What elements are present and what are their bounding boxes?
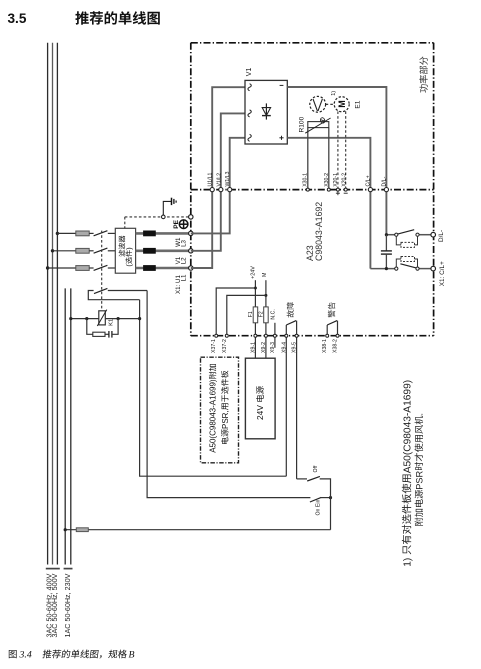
svg-text:M: M [262,272,268,277]
svg-text:.: . [414,413,424,416]
power section separator (dash-dot) [191,189,434,191]
label E1 [354,100,361,108]
svg-text:X9-5: X9-5 [292,342,298,353]
svg-text:X37-1: X37-1 [211,339,217,353]
converter enclosure boundary (dash-dot box) [191,42,434,44]
svg-text:A50(C98043-A1699): A50(C98043-A1699) [402,380,413,473]
svg-text:Off: Off [313,465,319,472]
contactor coil K1 [99,311,106,325]
svg-text:K1: K1 [108,319,114,326]
switch D/L- blade [397,230,415,235]
label 故障 [287,302,294,317]
switch C/L+ poles [395,267,398,270]
wire inner riser (K1 link) [140,300,287,477]
label W1/L3 [225,171,231,186]
polarity minus mark [280,84,284,86]
fuse bypass C/L+ (dashed) [396,259,401,267]
svg-text:X38-1: X38-1 [322,339,328,353]
polarity plus mark [279,137,283,139]
wire plus rail (C) [287,138,370,269]
label D/L- [381,176,387,186]
terminal X30-1 [306,188,309,191]
node ON junction [329,496,332,499]
wire +24V feeder [254,280,256,307]
wire filter to X1 terminal U1/L1 (thick) [136,267,189,270]
label (选件) [124,247,133,266]
terminal W1/L3 at board edge [228,188,232,192]
svg-text:F1: F1 [248,311,254,317]
svg-text:V1: V1 [246,68,253,77]
polarity + for fan [336,192,340,194]
terminal X9-4 [285,334,288,337]
wire filter to X1 terminal V1/L2 (thick) [136,250,189,253]
fuse F phase V1/L2 [76,248,89,253]
wire branch to fuse W1/L3 [57,232,75,234]
footnote mark 1) [331,91,337,96]
wire outer riser down to ON line [147,291,310,498]
terminal V1/L2 at board edge [219,188,223,192]
wire contactor to filter U1/L1 [108,267,116,269]
label PE [173,219,180,228]
label V1 L2 [175,256,182,264]
label 3AC 50-60Hz 400V [44,573,53,637]
svg-text:X30-1: X30-1 [303,173,309,187]
svg-text:PSR,: PSR, [221,410,230,429]
wire W1/L3 riser [191,138,245,234]
wire 1AC line A [64,288,66,564]
svg-text:): ) [124,247,133,249]
label V1/L2 [216,173,222,187]
footnote line 1 [402,380,414,567]
node +24V junction [254,287,257,290]
node coil rail on 1AC [69,317,72,320]
wire contactor to filter V1/L2 [108,250,116,252]
wire aux contact to outer riser [108,290,147,292]
label C98043-A1692 [314,202,324,261]
terminal X9-5 [295,334,298,337]
terminal X1 PE wire circle [189,215,193,219]
svg-text:1): 1) [402,555,413,567]
svg-text:24V: 24V [255,403,265,420]
terminal X1 U1/L1 [189,266,193,270]
wire fuse to contactor U1/L1 [89,267,93,269]
earth ground symbol [171,198,173,205]
svg-text:X30-2: X30-2 [324,173,330,187]
svg-text:U1/L1: U1/L1 [208,173,214,187]
polarity - for fan [344,192,348,194]
svg-text:+24V: +24V [250,266,256,279]
thermistor R100 body [308,122,329,128]
switch OFF blade [307,476,320,481]
wire V1/L2 riser [191,113,245,250]
label C/L+ [365,175,371,186]
label 功率部分 (power section) [419,57,428,93]
node M junction [264,294,267,297]
svg-text:X9-1: X9-1 [250,342,256,353]
terminal X9-3 [273,334,276,337]
svg-text:X9-3: X9-3 [270,342,276,353]
label M [262,272,268,277]
label D/L- terminal [438,230,445,242]
terminal X20-1 [336,188,339,191]
ferrite core V1/L2 [144,248,156,253]
svg-text:X9-2: X9-2 [261,342,267,353]
wire phase L1 [47,43,49,565]
supply end tick 3AC [46,568,60,570]
rectifier V1 box [245,80,287,144]
fuse F phase W1/L3 [76,231,89,236]
contactor K1 main contact U1/L1 [94,265,108,270]
svg-text:D/L-: D/L- [381,176,387,186]
wire minus rail (D) [287,87,386,235]
label X1: C/L+ [439,261,446,286]
label 警告 [328,302,335,317]
label 3AC 50-60Hz 500V [50,573,59,637]
svg-text:R100: R100 [299,116,306,132]
node C/L+ cap junction [385,267,388,270]
PE protective earth symbol [179,220,188,229]
svg-text:L2: L2 [181,257,188,264]
contactor K1 mechanical link (dashed) [101,231,103,311]
figure caption [9,650,32,661]
wire jog to X37-2 [227,295,266,335]
terminal D/L- [431,232,436,237]
node D/L- cap junction [385,233,388,236]
node tap phase branch U1/L1 [46,266,49,269]
diode symbol inside V1 [265,103,267,119]
wire fan supply + (dashed) [337,111,339,189]
fan motor M E1 [334,97,349,112]
svg-text:3AC 50-60Hz, 500V: 3AC 50-60Hz, 500V [50,573,59,637]
label +24V [250,266,256,279]
svg-text:L3: L3 [181,239,188,246]
label 24V 电源 [255,386,265,420]
svg-text:V1/L2: V1/L2 [216,173,222,187]
label W1 L3 [175,237,182,247]
wire C/L+ branch [370,268,396,270]
svg-text:X20-2: X20-2 [341,173,347,187]
terminal X38-1 [326,334,329,337]
wire X9-5 to OFF switch [297,478,307,480]
svg-text:1): 1) [331,91,337,96]
wire PE dashed vertical from filter [124,217,126,228]
node PE junction [162,215,166,219]
svg-text:L1: L1 [181,274,188,281]
svg-text:C/L+: C/L+ [365,175,371,186]
label X30-2 [324,173,330,187]
terminal U1/L1 at board edge [210,188,214,192]
wire branch to fuse V1/L2 [53,250,76,252]
contactor K1 main contact W1/L3 [94,231,108,236]
terminal X20-2 [344,188,347,191]
wire PE dashed horizontal to PE terminal [125,216,189,218]
terminal X1 C/L+ [431,266,436,271]
wire 1AC line B [70,288,72,564]
svg-text:E1: E1 [354,100,361,108]
terminal X1 W1/L3 [189,231,193,235]
fuse bypass D/L- (dashed) [396,236,401,245]
wire jog to X37-1 [216,288,255,336]
terminal X9-2 [264,334,267,337]
title 推荐的单线图 [75,11,159,24]
label X30-1 [303,173,309,187]
supply end tick 1AC [64,568,73,570]
theta mark [320,117,326,124]
dc link capacitor [385,235,387,251]
label Off [313,465,319,472]
fuse F2 [264,307,269,323]
fan impeller symbol [310,96,326,112]
svg-text:M: M [337,100,347,108]
label F1 [248,311,254,317]
wire fan supply - (dashed) [345,111,347,189]
svg-text:X37-2: X37-2 [222,339,228,353]
thermistor R100 legs [307,128,309,190]
wire branch to fuse U1/L1 [48,267,76,269]
snubber resistor [93,332,105,336]
24V power supply box [245,358,275,439]
section number 3.5 [8,11,27,26]
terminal D/L- at board edge [384,188,388,192]
wire fan to motor (dashed) [326,103,335,105]
terminal C/L+ at board edge [368,188,372,192]
optional supply A50 box (dash-dot) [201,357,239,463]
wire phase L2 [52,43,54,565]
node snubber right [117,317,120,320]
svg-text:D/L-: D/L- [438,230,445,242]
svg-text:X9-4: X9-4 [281,342,287,353]
terminal X1 V1/L2 [189,249,193,253]
svg-text:1AC 50-60Hz, 230V: 1AC 50-60Hz, 230V [63,573,72,637]
terminal X37-2 [225,334,228,337]
label 1AC 50-60Hz 230V [63,573,72,637]
terminal X38-2 [336,334,339,337]
ferrite core U1/L1 [144,266,156,271]
node tap phase branch W1/L3 [56,232,59,235]
svg-text:C98043-A1692: C98043-A1692 [314,202,324,261]
svg-text:PSR: PSR [414,470,424,489]
svg-text:A50(C98043-A1699): A50(C98043-A1699) [209,379,218,453]
snubber capacitor [108,331,110,338]
switch C/L+ blade [400,264,417,268]
svg-text:3.4: 3.4 [19,650,32,661]
svg-text:N.C.: N.C. [271,309,277,319]
terminal X37-1 [215,334,218,337]
label On [316,500,322,516]
wire fuse to contactor W1/L3 [89,232,93,234]
wire phase L3 [56,43,58,565]
svg-text:B: B [129,650,135,661]
fuse control circuit [76,528,88,532]
svg-text:X1: C/L+: X1: C/L+ [439,261,446,286]
label A23 [305,245,315,261]
node bottom return on 1AC [64,528,67,531]
label R100 [299,116,306,132]
label U1/L1 [208,173,214,187]
wire X9-4 down [285,336,287,477]
label X1: U1 L1 [175,275,182,294]
wire to earth symbol [163,201,171,215]
wire M feeder [265,280,267,307]
terminal X9-1 [254,334,257,337]
wire U1/L1 riser [191,87,245,268]
wire fuse to contactor V1/L2 [89,250,93,252]
thermistor diagonal [305,118,330,133]
contactor K1 main contact V1/L2 [94,248,108,253]
switch D/L- poles [395,233,398,236]
wire D/L- branch [386,234,396,236]
relay contact fault (故障) [285,325,287,336]
ferrite core W1/L3 [144,231,156,236]
wire aux bracket [88,291,139,300]
wire ON line right [321,497,331,499]
wire contactor to filter W1/L3 [108,232,116,234]
auxiliary contact blade [94,288,107,293]
label V1 [246,68,253,77]
label 滤波器 [119,236,126,257]
fuse F1 [253,307,258,323]
node snubber left [85,317,88,320]
label N.C. [271,309,277,319]
node tap phase branch V1/L2 [51,249,54,252]
fuse F phase U1/L1 [76,266,89,271]
label X20-2 [341,173,347,187]
wire K1 coil rail [71,318,99,320]
terminal X30-2 [327,188,330,191]
label A50(C98043-A1699)附加 [209,364,218,453]
node K1 rail junction right [138,317,141,320]
AC input marks ~ [248,84,251,91]
svg-text:W1/L3: W1/L3 [225,171,231,186]
label K1 [108,319,114,326]
wire F1 to X9-1 [254,323,256,358]
wire X9-5 down [296,336,298,479]
relay contact alarm (警告) [326,325,328,336]
label 电源PSR,用于选件板 [221,371,230,444]
wire filter to X1 terminal W1/L3 (thick) [136,232,189,235]
wire OFF to right riser [320,479,331,530]
svg-text:On Ein: On Ein [316,500,322,516]
wire F2 to X9-2 [265,323,267,358]
RC snubber branch [87,319,93,335]
wire X9-3 stub with N.C. [274,323,276,348]
svg-text:X20-1: X20-1 [333,173,339,187]
label F2 [258,311,264,317]
line filter box (optional) [115,228,135,273]
svg-text:3.5: 3.5 [8,11,27,26]
footnote line 2 [414,413,424,526]
wire bottom return to 1AC [65,529,330,531]
svg-text:F2: F2 [258,311,264,317]
switch ON blade [310,497,321,502]
svg-text:X38-2: X38-2 [333,339,339,353]
label X20-1 [333,173,339,187]
